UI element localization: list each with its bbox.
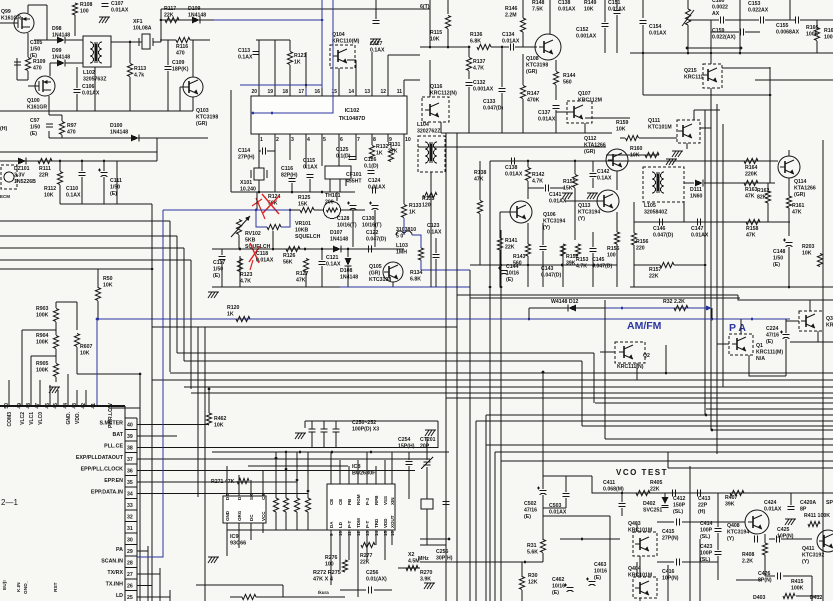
wire	[0, 22, 14, 24]
wire	[336, 192, 338, 201]
svg-text:1N4148: 1N4148	[330, 236, 348, 242]
svg-text:4.7K: 4.7K	[532, 178, 543, 184]
svg-text:KTC3194: KTC3194	[727, 529, 749, 535]
wire	[338, 142, 340, 166]
svg-text:N/A: N/A	[756, 356, 765, 362]
capacitor C113	[253, 52, 260, 55]
label R146 2.2M	[505, 6, 518, 18]
capacitor C254c	[406, 462, 413, 465]
svg-text:17: 17	[298, 89, 304, 95]
wire	[604, 28, 606, 53]
wire	[738, 295, 833, 300]
label pin 36	[127, 469, 133, 475]
junction	[593, 264, 596, 267]
wire bus	[582, 425, 833, 427]
svg-text:R271 47K: R271 47K	[211, 479, 235, 485]
label pin label TX.INH	[106, 582, 124, 588]
svg-text:1N60: 1N60	[690, 193, 703, 199]
wire	[371, 142, 373, 145]
label D107	[330, 230, 348, 242]
svg-text:KR: KR	[826, 322, 833, 328]
svg-text:0.01AX: 0.01AX	[691, 232, 709, 238]
svg-text:Q403: Q403	[628, 521, 641, 527]
wire	[740, 19, 759, 21]
junction	[489, 286, 492, 289]
svg-text:560: 560	[563, 79, 572, 85]
resistor R408 2.2K	[762, 543, 767, 555]
label C138t	[558, 0, 576, 12]
wire	[97, 269, 99, 288]
svg-text:(E): (E)	[213, 273, 220, 279]
label pin 13	[364, 89, 370, 95]
resistor R111 22R	[38, 158, 52, 163]
wire	[259, 150, 261, 152]
capacitor C138	[512, 158, 515, 165]
svg-text:VLC2: VLC2	[20, 412, 26, 425]
wire	[722, 67, 770, 69]
wire bus	[605, 438, 833, 440]
capacitor C224	[780, 331, 790, 339]
wire	[161, 19, 214, 21]
label L105	[644, 203, 668, 215]
label C105	[30, 40, 43, 59]
diode D108	[345, 258, 352, 266]
label pin RPB	[374, 495, 379, 505]
resistor R271	[237, 478, 249, 483]
wire	[161, 8, 430, 10]
wire	[85, 390, 87, 406]
svg-text:CE: CE	[329, 499, 334, 505]
wire	[616, 171, 618, 190]
svg-text:Q104: Q104	[332, 32, 345, 38]
label R607 10K	[80, 344, 93, 356]
label pin 17	[298, 89, 304, 95]
svg-text:R97: R97	[67, 123, 77, 129]
svg-text:10: 10	[338, 530, 343, 536]
label SP	[826, 500, 833, 506]
wire	[565, 476, 567, 492]
svg-text:(GR): (GR)	[369, 270, 381, 276]
junction	[524, 561, 527, 564]
label 3103810	[396, 227, 416, 239]
junction	[151, 268, 154, 271]
svg-text:C160: C160	[712, 0, 725, 4]
label R160 10K	[630, 146, 643, 158]
label R271 47K	[211, 479, 235, 485]
capacitor C115c	[307, 175, 314, 178]
svg-text:(GR): (GR)	[584, 149, 596, 155]
svg-text:1K: 1K	[376, 150, 383, 156]
wire	[137, 458, 430, 460]
wire	[285, 512, 287, 530]
label R147 470K	[527, 91, 540, 103]
label R156 220	[636, 239, 649, 251]
label R108 100	[80, 2, 93, 14]
svg-text:46: 46	[45, 403, 51, 409]
label C160	[712, 0, 728, 17]
svg-text:10K: 10K	[214, 422, 224, 428]
label C110	[66, 186, 81, 198]
wire	[550, 187, 565, 189]
svg-text:Q112: Q112	[584, 136, 597, 142]
label pin label VDD.	[75, 411, 81, 424]
svg-text:CT201: CT201	[420, 437, 436, 443]
label Q112	[584, 136, 606, 155]
resistor R159	[626, 135, 639, 140]
wire	[437, 421, 439, 448]
svg-text:C424: C424	[764, 500, 777, 506]
svg-text:35: 35	[127, 480, 133, 486]
label C413	[698, 496, 711, 515]
resistor R31 5.6K	[540, 540, 545, 553]
thermistor TH101	[324, 202, 341, 219]
wire bus	[177, 352, 594, 354]
wire	[274, 142, 276, 192]
wire	[700, 127, 711, 129]
label C155	[776, 23, 800, 35]
wire	[584, 123, 586, 133]
wire	[137, 596, 170, 598]
svg-text:C133: C133	[483, 99, 496, 105]
label pin 20	[251, 89, 257, 95]
label R121 1K	[294, 53, 307, 65]
svg-text:6.8K: 6.8K	[470, 38, 481, 44]
label C114	[238, 148, 255, 160]
transistor Q116d	[425, 103, 439, 117]
label pin 45	[53, 403, 59, 409]
svg-text:0.1AX: 0.1AX	[66, 192, 81, 198]
ground	[785, 519, 796, 525]
label pin label COM3	[7, 412, 13, 427]
junction	[704, 264, 707, 267]
svg-text:0.01(AX): 0.01(AX)	[366, 576, 387, 582]
svg-text:10K: 10K	[430, 36, 440, 42]
capacitor C426c	[778, 573, 781, 580]
label pin label VLC1	[29, 412, 35, 425]
label R125 15K	[298, 195, 311, 207]
wire	[630, 52, 833, 54]
svg-text:KTC3198: KTC3198	[196, 114, 218, 120]
wire bus	[446, 397, 833, 399]
wire	[736, 579, 762, 581]
wire	[562, 246, 564, 287]
label pin 4	[307, 137, 310, 143]
svg-text:(Y): (Y)	[578, 216, 585, 222]
label R163 47K	[745, 187, 758, 199]
label pin P-T	[365, 521, 370, 529]
wire	[528, 187, 544, 189]
label pin 49	[17, 403, 23, 409]
wire	[262, 470, 264, 488]
trimmer CT201	[421, 457, 433, 469]
label C152	[576, 27, 597, 39]
wire	[479, 161, 481, 200]
wire bus	[593, 353, 595, 403]
svg-text:L104: L104	[417, 122, 429, 128]
svg-text:(E): (E)	[30, 53, 37, 59]
label R124	[268, 194, 281, 206]
capacitor C144	[498, 267, 508, 275]
transistor Q112	[606, 149, 628, 171]
wire	[304, 421, 306, 428]
wire	[420, 46, 470, 48]
svg-text:(Y): (Y)	[543, 225, 550, 231]
resistor R161 47K	[786, 196, 791, 208]
junction	[788, 286, 791, 289]
label R152 39K	[566, 254, 579, 266]
svg-text:Q113: Q113	[578, 203, 591, 209]
wire	[16, 58, 18, 80]
svg-text:100K: 100K	[36, 312, 49, 318]
svg-text:14: 14	[348, 89, 354, 95]
svg-text:15: 15	[331, 89, 337, 95]
ground	[295, 433, 306, 439]
svg-text:L105: L105	[644, 203, 656, 209]
svg-text:C462: C462	[552, 577, 565, 583]
svg-text:C412: C412	[673, 496, 686, 502]
svg-text:Q3: Q3	[826, 316, 833, 322]
wire	[341, 209, 365, 211]
svg-text:C420A: C420A	[800, 500, 816, 506]
junction	[527, 160, 530, 163]
wire	[50, 62, 57, 64]
resistor R116 470	[176, 37, 190, 42]
wire bus	[445, 133, 447, 601]
wire	[384, 538, 386, 560]
capacitor C425c	[777, 536, 780, 543]
svg-text:0.0022: 0.0022	[712, 4, 728, 10]
wire	[296, 512, 298, 530]
svg-text:11: 11	[397, 89, 403, 95]
wire	[529, 307, 605, 309]
label label	[318, 590, 329, 595]
label C250-252	[352, 420, 379, 432]
label C133	[483, 99, 503, 111]
wire	[556, 111, 574, 113]
wire	[527, 161, 529, 167]
label R136 6.8K	[470, 32, 483, 44]
capacitor C159c	[741, 29, 744, 36]
svg-text:C106: C106	[82, 84, 95, 90]
wire	[48, 96, 50, 115]
wire	[543, 475, 592, 477]
wire	[165, 489, 445, 491]
transistor Q215d	[703, 68, 717, 82]
wire	[289, 40, 291, 51]
svg-text:IC102: IC102	[345, 108, 360, 114]
svg-text:VLC1: VLC1	[29, 412, 35, 425]
wire blue	[96, 319, 98, 407]
svg-text:P-T: P-T	[347, 521, 352, 529]
label C137	[538, 110, 556, 122]
wire	[684, 160, 744, 162]
wire	[565, 200, 599, 202]
label pin 2	[276, 137, 279, 143]
wire bus	[712, 429, 833, 431]
svg-text:22K: 22K	[360, 559, 370, 565]
junction	[305, 84, 308, 87]
label R203 10K	[802, 244, 815, 256]
svg-text:3.3V: 3.3V	[14, 172, 25, 178]
svg-text:470: 470	[67, 129, 76, 135]
wire	[289, 142, 291, 160]
wire	[49, 137, 208, 139]
transistor Q116 box	[422, 97, 449, 122]
svg-text:0.1AX: 0.1AX	[427, 229, 442, 235]
wire	[390, 142, 392, 148]
svg-text:R164: R164	[745, 165, 758, 171]
label R123 4.7K	[240, 272, 253, 284]
label R135 120	[422, 196, 435, 208]
wire bus	[595, 402, 833, 404]
junction	[642, 52, 645, 55]
svg-text:SQUELCH: SQUELCH	[295, 234, 321, 240]
label R161 47K	[792, 203, 805, 215]
svg-text:C111: C111	[110, 178, 122, 184]
label pin n	[356, 530, 361, 536]
resistor R155 100	[614, 232, 619, 244]
svg-text:Q107: Q107	[578, 91, 591, 97]
transistor Q114	[778, 156, 800, 178]
wire	[55, 302, 57, 308]
wire	[764, 555, 766, 576]
svg-text:20: 20	[251, 89, 257, 95]
ground	[208, 557, 219, 563]
wire	[687, 0, 689, 9]
capacitor C137	[553, 106, 560, 109]
wire	[749, 355, 786, 376]
svg-text:R125: R125	[298, 195, 311, 201]
IC MCU edge	[0, 406, 125, 601]
svg-text:2.2M: 2.2M	[505, 12, 517, 18]
wire	[457, 294, 738, 296]
svg-text:C138: C138	[558, 0, 571, 6]
label D111 1N60	[690, 187, 703, 199]
label pin CS	[261, 494, 266, 500]
resistor R32 2.2K	[674, 305, 688, 310]
wire	[272, 231, 274, 249]
svg-text:R144: R144	[563, 73, 576, 79]
label Q411	[802, 546, 824, 565]
svg-text:100K: 100K	[806, 31, 819, 37]
resistor R50 10K	[95, 288, 100, 301]
wire	[785, 339, 787, 376]
resistor R30 12K	[519, 577, 524, 590]
svg-text:R156: R156	[636, 239, 649, 245]
wire	[0, 110, 193, 112]
svg-text:Q411: Q411	[802, 546, 815, 552]
capacitor C147	[698, 219, 701, 226]
svg-text:15: 15	[383, 530, 388, 536]
label MHz	[418, 556, 429, 562]
capacitor C97	[46, 124, 53, 127]
wire	[435, 238, 437, 253]
junction	[711, 429, 714, 432]
label pin label EPP.DATA.IN	[91, 490, 123, 496]
label C118	[256, 251, 274, 263]
capacitor C110	[79, 173, 86, 176]
svg-text:R50: R50	[103, 276, 113, 282]
svg-text:DZ101: DZ101	[14, 166, 30, 172]
wire bus	[500, 230, 502, 601]
svg-text:1: 1	[260, 137, 263, 143]
label pin label TX/RX	[107, 570, 123, 576]
wire	[633, 202, 635, 222]
svg-text:VCC: VCC	[261, 511, 266, 521]
label AM/FM	[627, 320, 662, 332]
inductor L105 coils	[652, 172, 664, 193]
wire	[28, 4, 47, 6]
svg-text:TX/RX: TX/RX	[107, 570, 123, 576]
svg-text:GND: GND	[225, 510, 230, 521]
wire	[374, 210, 376, 247]
wire	[59, 161, 61, 171]
svg-text:R116: R116	[176, 44, 188, 50]
wire	[27, 33, 29, 57]
resistor R141 22K	[497, 238, 502, 250]
wire	[683, 202, 685, 222]
wire bus	[706, 408, 833, 410]
wire	[226, 466, 228, 488]
wire	[137, 447, 438, 449]
svg-text:Q1: Q1	[756, 343, 763, 349]
label C416	[662, 569, 679, 581]
wire	[403, 80, 405, 88]
wire bus	[176, 236, 178, 353]
resistor R280	[406, 565, 418, 570]
svg-text:Q2: Q2	[643, 353, 650, 359]
svg-text:KRC111(N): KRC111(N)	[617, 364, 644, 370]
wire	[258, 40, 260, 88]
svg-text:0.022(AX): 0.022(AX)	[712, 34, 736, 40]
label C109	[172, 60, 189, 72]
label pin DO	[225, 493, 230, 500]
IC U8 pins	[331, 477, 392, 538]
capacitor C154	[640, 21, 647, 24]
wire	[522, 32, 524, 47]
capacitor C111	[98, 169, 108, 177]
wire	[542, 476, 544, 489]
label pin label GND.	[66, 411, 72, 424]
wire	[137, 573, 160, 575]
label conn EU	[2, 580, 8, 590]
label C254	[398, 437, 415, 449]
svg-text:C146: C146	[653, 226, 666, 232]
svg-text:D402: D402	[643, 501, 656, 507]
svg-text:C411: C411	[603, 480, 615, 486]
svg-text:R109: R109	[33, 59, 46, 65]
wire	[39, 380, 41, 406]
wire	[767, 203, 769, 222]
transistor Q1 box	[729, 334, 753, 355]
wire	[59, 185, 61, 204]
ground	[424, 583, 435, 589]
svg-text:10K: 10K	[616, 126, 626, 132]
label C462	[552, 577, 565, 596]
resistor R137 4.7K	[466, 58, 471, 71]
svg-text:0.01AX: 0.01AX	[256, 257, 274, 263]
wire	[630, 286, 833, 288]
wire	[699, 539, 701, 601]
svg-text:VCO TEST: VCO TEST	[616, 468, 668, 477]
label R164 220K	[745, 165, 758, 177]
svg-text:R32 2.2K: R32 2.2K	[663, 299, 685, 305]
svg-text:C415: C415	[662, 529, 675, 535]
label pin label VLC0	[38, 412, 44, 425]
wire	[667, 452, 669, 468]
svg-text:18P(K): 18P(K)	[172, 66, 189, 72]
svg-text:13: 13	[364, 89, 370, 95]
